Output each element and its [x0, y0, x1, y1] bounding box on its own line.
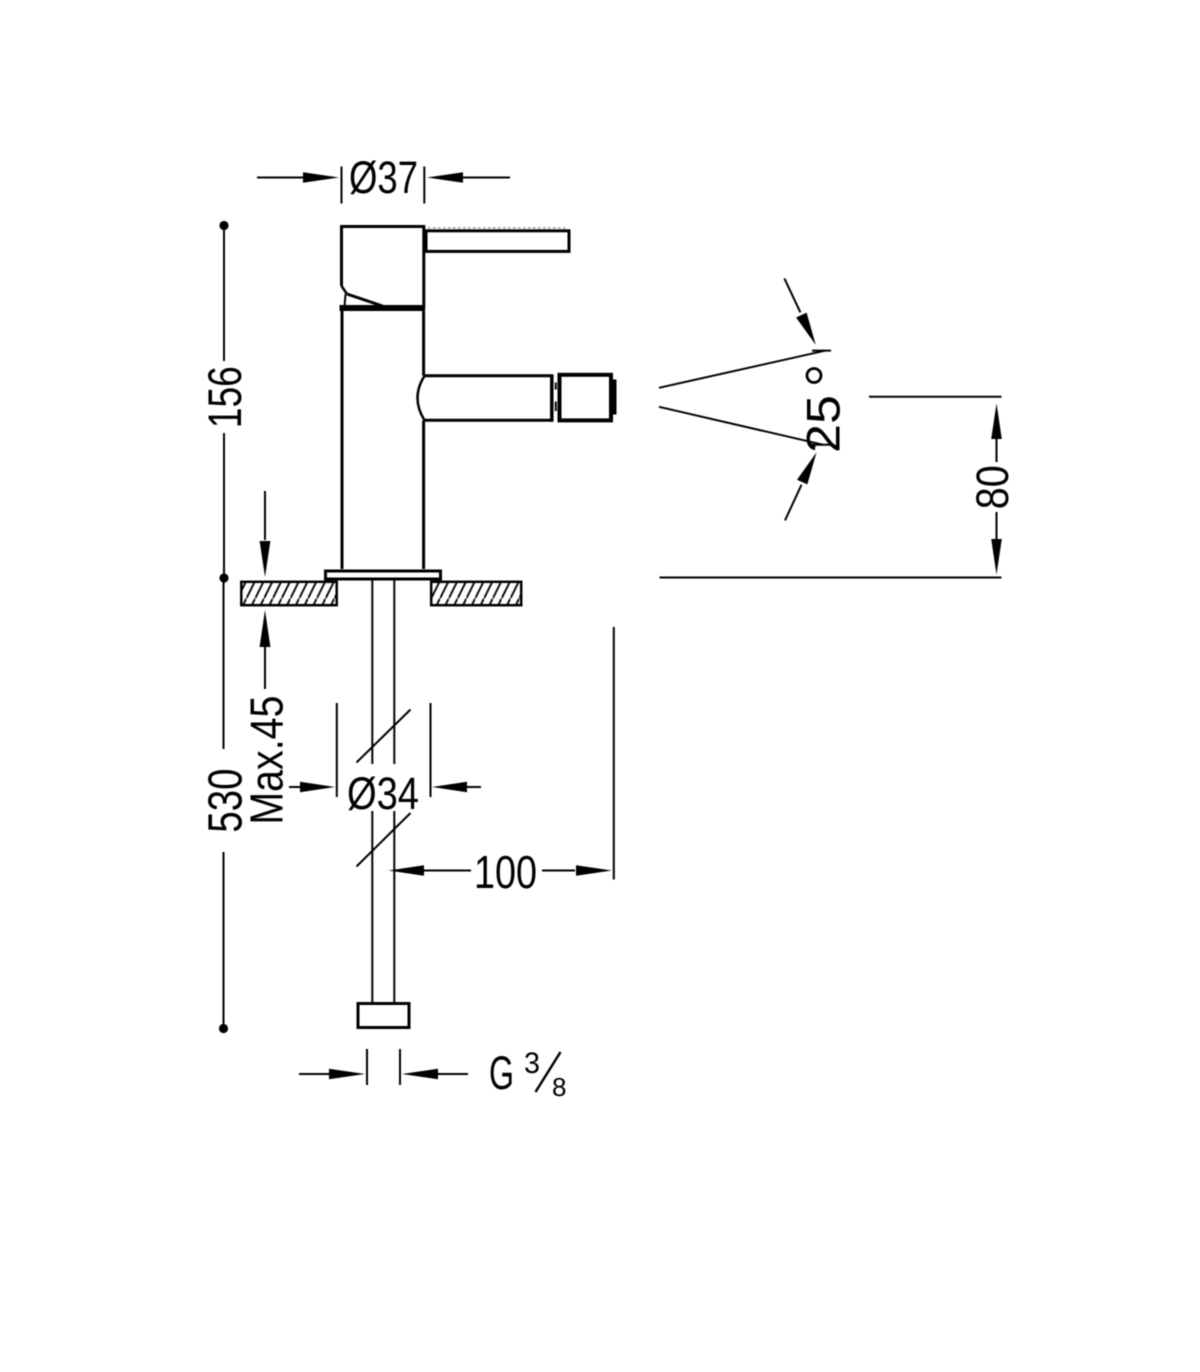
dim 156 bottom dot	[219, 573, 228, 582]
angle 25 lower end tick	[812, 444, 831, 446]
dim 156 top dot	[219, 221, 228, 230]
lower body left edge	[341, 311, 344, 569]
dim Ø37 right arrowhead	[427, 172, 463, 183]
dim Ø34 left extension line	[336, 703, 338, 797]
dim G38 right arrowhead	[402, 1069, 438, 1080]
dim 156 lower line	[223, 433, 225, 578]
dim Max.45 down arrowhead	[260, 541, 271, 577]
faucet upper body left edge	[340, 225, 343, 286]
supply pipe left edge lower	[371, 811, 373, 1002]
handle hinge diagonal	[347, 294, 383, 306]
dim Max.45 lower stem	[264, 647, 266, 689]
supply pipe right edge lower	[393, 811, 395, 1002]
svg-text:8: 8	[552, 1072, 567, 1102]
aerator body	[560, 375, 612, 421]
svg-text:3: 3	[524, 1047, 540, 1080]
dim Ø34 right arrowhead	[432, 782, 467, 793]
dim 530 lower line	[223, 852, 225, 1028]
handle hinge kink	[342, 286, 348, 294]
dim 80 bottom extension line	[660, 577, 1002, 579]
dim 80 upper stem	[996, 439, 998, 462]
dim G38 left arrowhead	[329, 1069, 365, 1080]
aerator tip	[612, 380, 617, 415]
spout right cap	[550, 374, 554, 422]
lower body right edge upper segment	[422, 311, 425, 376]
escutcheon plate	[326, 571, 441, 579]
svg-text:G: G	[489, 1046, 514, 1099]
angle 25 upper end tick	[812, 350, 831, 352]
svg-text:Ø34: Ø34	[347, 768, 419, 819]
dim Ø34 left arrowhead	[300, 782, 335, 793]
dim Ø37 left arrowhead	[303, 172, 339, 183]
countertop left block	[241, 582, 336, 605]
supply pipe left edge upper	[371, 581, 373, 765]
dim 80 up arrowhead	[991, 404, 1002, 440]
label 25 deg degree circle	[807, 369, 821, 383]
dim 530 upper line	[223, 580, 225, 749]
svg-text:156: 156	[198, 366, 251, 428]
dim Ø37 right leader line	[463, 177, 510, 179]
dim 100 left line	[424, 870, 471, 872]
dim Max.45 up arrowhead	[260, 610, 271, 647]
dim Ø37 right extension tick	[423, 167, 425, 204]
svg-text:80: 80	[967, 465, 1018, 509]
dim Ø34 right extension line	[430, 703, 432, 797]
svg-text:25: 25	[797, 395, 850, 453]
faucet upper body right edge	[422, 225, 425, 309]
dim Max.45 upper stem	[264, 491, 266, 540]
connection nut	[358, 1004, 409, 1028]
angle 25 bottom arrow stem	[785, 485, 802, 521]
dim G38 left leader line	[299, 1073, 329, 1075]
dim 100 left arrowhead	[389, 865, 425, 876]
dim 530 bottom dot	[219, 1024, 228, 1033]
dim 80 lower stem	[996, 512, 998, 539]
countertop right block	[431, 582, 521, 605]
pipe break upper diagonal	[357, 710, 411, 763]
dim 156 upper line	[223, 228, 225, 361]
faucet upper body top edge	[340, 225, 425, 228]
dim 100 right arrowhead	[576, 865, 612, 876]
handle hinge inner vertical	[345, 294, 346, 307]
angle 25 upper ray	[659, 351, 825, 388]
dim Ø34 right leader line	[467, 786, 481, 788]
spout left arc	[418, 376, 425, 421]
svg-text:100: 100	[474, 846, 537, 898]
dim G38 left extension tick	[366, 1049, 368, 1085]
fraction slash	[536, 1052, 561, 1092]
dim Ø34 left leader line	[289, 786, 301, 788]
svg-text:530: 530	[199, 769, 252, 833]
handle top dashed highlight	[428, 227, 568, 229]
dim 100 right line	[542, 870, 575, 872]
dim Ø37 left extension tick	[341, 167, 343, 204]
angle 25 top arrow stem	[784, 278, 800, 312]
dim 100 right extension line	[613, 627, 615, 880]
pipe break lower diagonal	[357, 813, 411, 867]
dim G38 right extension tick	[399, 1049, 401, 1085]
handle lever bar	[426, 231, 569, 252]
svg-text:Ø37: Ø37	[349, 152, 418, 203]
dim Ø37 left leader line	[257, 177, 303, 179]
spout joint lower tick	[555, 402, 557, 412]
dim 80 down arrowhead	[991, 539, 1002, 575]
angle 25 top arrowhead	[796, 313, 816, 345]
spout bottom edge	[424, 419, 551, 422]
angle 25 lower ray	[659, 407, 824, 445]
spout top edge	[424, 374, 551, 377]
dim G38 right leader line	[438, 1073, 468, 1075]
lower body right edge lower segment	[422, 421, 425, 570]
angle 25 bottom arrowhead	[797, 452, 817, 484]
supply pipe right edge upper	[393, 581, 395, 765]
body junction thick bar	[340, 305, 426, 311]
spout joint upper tick	[555, 383, 557, 390]
dim 80 top extension line	[869, 396, 1002, 398]
